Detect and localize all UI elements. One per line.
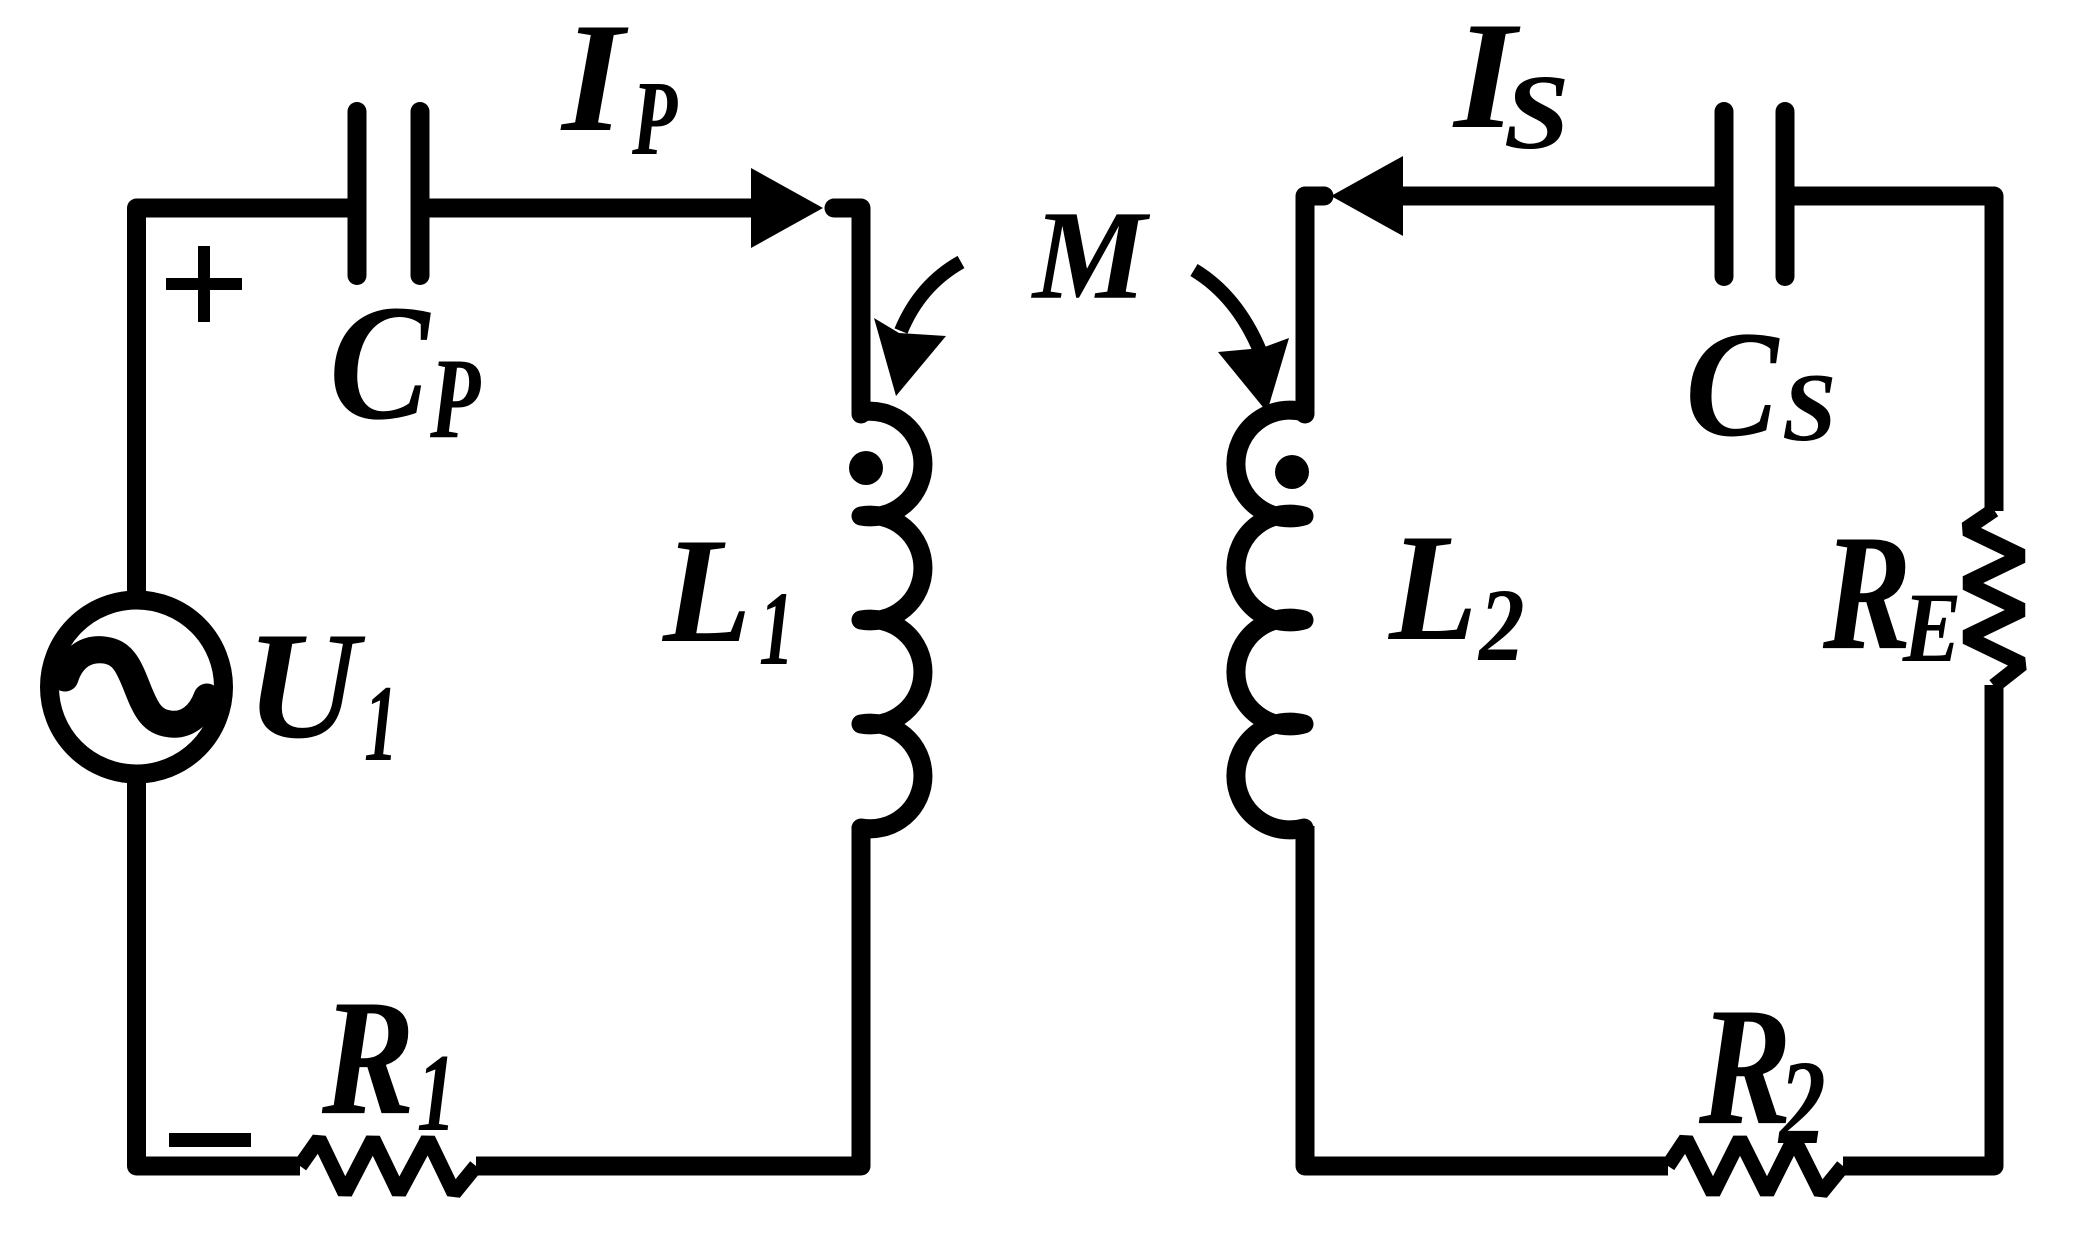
plus sign [166, 246, 242, 322]
wire: top run from C_P to I_P arrow base [420, 199, 753, 218]
label I_P [560, 0, 678, 177]
capacitor C_P [357, 112, 420, 276]
label L_1 [661, 507, 794, 688]
svg-text:M: M [1031, 184, 1151, 326]
svg-text:R: R [1698, 974, 1792, 1161]
svg-text:2: 2 [1477, 569, 1525, 684]
svg-text:L: L [661, 507, 751, 674]
svg-text:I: I [560, 0, 629, 165]
wire: right loop, corner stub + left side down to L2 top [1305, 196, 1324, 414]
minus sign [169, 1133, 251, 1147]
svg-text:1: 1 [759, 571, 794, 688]
label R_E [1822, 501, 1961, 684]
source U1 circle [50, 600, 224, 774]
svg-text:U: U [246, 600, 366, 770]
wire: R2 to bottom-left of right loop, up to L2 bottom [1305, 826, 1668, 1166]
svg-text:C: C [1685, 300, 1780, 469]
label R_2 [1698, 974, 1826, 1170]
wire: R1 to bottom-left corner, up to source U1 [137, 783, 301, 1166]
mutual arrow right head [1218, 338, 1289, 412]
source U1 sine tilde [65, 650, 207, 725]
capacitor C_S [1724, 112, 1785, 277]
inductor L1 [861, 411, 923, 829]
inductor L2 [1236, 410, 1304, 830]
label U_1 [246, 600, 398, 784]
label L_2 [1387, 503, 1525, 683]
wire: C_S to top-right corner, down to R_E [1785, 196, 1994, 511]
svg-text:R: R [321, 967, 415, 1150]
svg-text:P: P [429, 335, 481, 463]
svg-text:L: L [1387, 503, 1477, 673]
svg-text:E: E [1902, 573, 1962, 683]
svg-text:R: R [1822, 501, 1911, 684]
wire: left loop, left side up + top run to C_P [137, 208, 358, 591]
svg-text:1: 1 [417, 1031, 456, 1155]
dot L2 polarity [1275, 455, 1309, 489]
svg-text:P: P [631, 59, 678, 178]
svg-text:2: 2 [1777, 1037, 1826, 1170]
wire: L1 bottom, bottom-right corner, bottom run to R1 [476, 826, 861, 1166]
label C_P [329, 272, 481, 463]
wire: corner stub + right side down to L1 top [834, 208, 861, 414]
label C_S [1685, 300, 1836, 469]
mutual inductance arrow right [1194, 270, 1260, 351]
label R_1 [321, 967, 456, 1155]
dot L1 polarity [849, 451, 883, 485]
mutual inductance arrow left [901, 262, 961, 331]
svg-text:S: S [1504, 53, 1570, 171]
current arrow I_P head [751, 168, 823, 248]
resistor R1 [300, 1139, 476, 1193]
svg-text:1: 1 [364, 663, 398, 784]
label I_S [1452, 0, 1570, 172]
wire: R_E to bottom-right corner, bottom run to R2 [1843, 685, 1994, 1166]
current arrow I_S head [1331, 156, 1403, 236]
label M [1031, 184, 1151, 326]
svg-text:S: S [1782, 354, 1836, 462]
resistor R2 [1668, 1139, 1843, 1193]
svg-text:C: C [329, 272, 431, 455]
wire: top run from I_S arrow base to C_S [1403, 187, 1724, 206]
resistor R_E [1966, 510, 2022, 686]
mutual arrow left head [874, 318, 946, 396]
